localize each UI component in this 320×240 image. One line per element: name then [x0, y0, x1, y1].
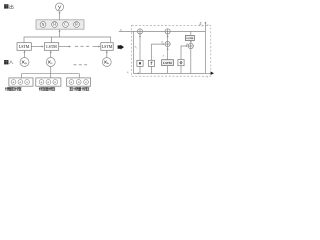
svg-text:LSTM: LSTM	[187, 37, 195, 40]
svg-text:LSTM: LSTM	[19, 45, 30, 49]
svg-text:LSTM: LSTM	[46, 45, 57, 49]
svg-text:LSTM: LSTM	[163, 61, 172, 65]
svg-text:N: N	[42, 23, 45, 27]
svg-text:LSTM: LSTM	[102, 45, 113, 49]
svg-text:H: H	[53, 23, 56, 27]
